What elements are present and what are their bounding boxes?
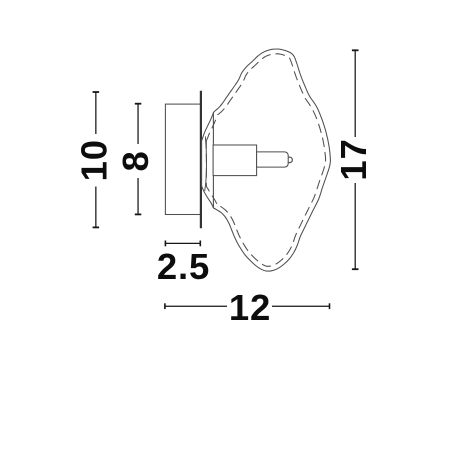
svg-text:2.5: 2.5 [157, 246, 210, 287]
dimension line 8 [135, 104, 142, 215]
wall plate [200, 91, 202, 229]
glass inner wall near plate [205, 137, 207, 192]
svg-text:12: 12 [229, 287, 271, 328]
dimension line 10 [93, 92, 100, 227]
lamp socket [213, 145, 257, 176]
glass shade inner dashed contour [206, 54, 325, 266]
glass shade outer contour [202, 49, 331, 271]
bulb [257, 152, 289, 167]
shade rim line [212, 112, 214, 208]
svg-text:17: 17 [333, 138, 374, 180]
svg-text:10: 10 [73, 139, 114, 181]
canopy box [165, 104, 201, 214]
svg-text:8: 8 [115, 150, 156, 171]
bulb tip loop [288, 157, 292, 163]
dimension line 2.5 [165, 241, 200, 247]
dimension line 12 [165, 303, 330, 309]
dimension line 17 [352, 50, 359, 269]
